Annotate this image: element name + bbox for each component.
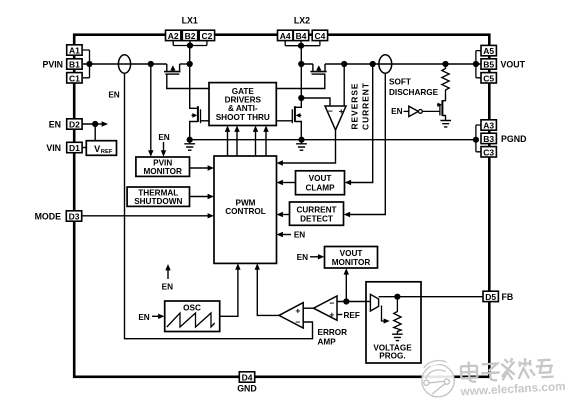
- svg-text:EN: EN: [49, 120, 61, 130]
- wire VOUT to comparator non-inverting input: [343, 64, 345, 106]
- pin D5: [483, 291, 498, 302]
- wire error amp inverting input to voltage prog: [337, 301, 370, 303]
- wire PVIN from B1 to high-side PMOS: [83, 63, 167, 65]
- op-amp error amplifier: [314, 296, 338, 320]
- pin C2: [199, 30, 214, 41]
- svg-text:REF: REF: [101, 149, 113, 155]
- transistor soft discharge NMOS: [437, 95, 446, 121]
- pin A4: [278, 30, 293, 41]
- mux voltage prog: [370, 294, 378, 311]
- svg-text:EN: EN: [391, 107, 402, 116]
- svg-text:B2: B2: [185, 31, 196, 41]
- resistor soft discharge: [442, 64, 449, 95]
- svg-text:C3: C3: [483, 147, 494, 157]
- ground symbol right NMOS: [296, 140, 307, 151]
- watermark chinese text: [461, 356, 554, 382]
- svg-text:GND: GND: [237, 384, 257, 394]
- node VOUT pin bracket: [473, 51, 481, 78]
- wire from ellipse down to current detect: [344, 73, 386, 217]
- wire gate of left NMOS to gate drivers: [201, 120, 210, 122]
- op-amp reverse current comparator: [325, 106, 346, 130]
- svg-text:D4: D4: [242, 373, 253, 383]
- node B1 bracket dot: [83, 50, 93, 78]
- svg-text:A2: A2: [168, 31, 179, 41]
- pin B3: [481, 133, 496, 144]
- svg-text:D2: D2: [69, 120, 80, 130]
- wire PVIN monitor output to PWM: [190, 165, 215, 170]
- svg-text:D1: D1: [69, 143, 80, 153]
- svg-text:A1: A1: [69, 46, 80, 56]
- node EN floating arrow: [162, 264, 173, 291]
- pin B2: [182, 30, 197, 41]
- svg-text:C2: C2: [201, 31, 212, 41]
- svg-text:& ANTI-: & ANTI-: [228, 104, 258, 113]
- block VOUT CLAMP: [296, 171, 345, 195]
- node REF label: [337, 311, 360, 320]
- block GATE DRIVERS & ANTI-SHOOT THRU: [209, 83, 276, 126]
- wire LX1 vertical: [187, 42, 198, 108]
- pin D1: [67, 142, 82, 153]
- svg-text:REVERSE: REVERSE: [349, 82, 359, 129]
- ellipse crossover EN left: [118, 55, 130, 73]
- svg-text:B3: B3: [483, 134, 494, 144]
- svg-text:MONITOR: MONITOR: [143, 167, 182, 176]
- wire EN arrow into PVIN monitor: [158, 133, 169, 157]
- svg-text:MONITOR: MONITOR: [332, 258, 371, 267]
- wire MODE from D3 to PWM: [82, 213, 214, 218]
- svg-text:C5: C5: [483, 73, 494, 83]
- resistor voltage prog: [394, 297, 401, 334]
- pin A5: [481, 45, 496, 56]
- svg-text:B4: B4: [296, 31, 307, 41]
- svg-text:SHOOT THRU: SHOOT THRU: [216, 113, 270, 122]
- op-amp PWM comparator: [279, 303, 303, 328]
- svg-text:C4: C4: [314, 31, 325, 41]
- pin C5: [481, 73, 496, 84]
- node SOFT DISCHARGE label: [389, 78, 439, 98]
- pin A1: [67, 45, 82, 56]
- svg-text:REF: REF: [344, 311, 360, 320]
- IC outline border: [74, 35, 489, 377]
- inverter soft discharge EN: [391, 106, 440, 116]
- wire LX2 vertical: [295, 43, 305, 108]
- svg-text:VOUT: VOUT: [501, 60, 526, 70]
- svg-text:CONTROL: CONTROL: [225, 207, 265, 216]
- svg-text:DETECT: DETECT: [300, 214, 333, 223]
- wire EN arrow into PWM right: [277, 231, 306, 240]
- ground symbol left NMOS: [184, 140, 195, 151]
- wire mux output to FB: [379, 294, 483, 300]
- block VOLTAGE PROG: [366, 282, 421, 363]
- svg-text:LX1: LX1: [182, 16, 198, 26]
- svg-text:SHUTDOWN: SHUTDOWN: [134, 197, 182, 206]
- wire PMOS right drain to VOUT: [325, 61, 481, 67]
- node PGND pin bracket: [473, 125, 481, 152]
- svg-text:EN: EN: [162, 282, 173, 291]
- svg-text:B1: B1: [69, 60, 80, 70]
- node ERROR AMP label: [318, 328, 348, 347]
- wire PVIN sense tap down to PVIN monitor: [148, 61, 154, 157]
- node LX2 pin bracket: [285, 41, 320, 46]
- pin B1: [67, 59, 82, 70]
- wire VIN to VREF: [82, 147, 86, 149]
- wire mux select arrow to resistor: [382, 306, 390, 324]
- wire PMOS left drain to LX1 node: [180, 61, 193, 67]
- wire PWM to gate drivers arrows x4: [225, 126, 269, 157]
- svg-text:EN: EN: [294, 231, 305, 240]
- wire gate of left PMOS to gate drivers: [167, 74, 209, 89]
- block PWM CONTROL: [214, 156, 277, 263]
- svg-text:AMP: AMP: [318, 337, 337, 346]
- ellipse crossover right: [379, 55, 392, 73]
- svg-text:PGND: PGND: [501, 134, 526, 144]
- node REVERSE CURRENT label: [349, 82, 370, 130]
- svg-text:VIN: VIN: [46, 143, 61, 153]
- svg-text:ERROR: ERROR: [318, 328, 348, 337]
- wire comparator output to PWM control: [277, 130, 336, 166]
- transistor high-side PMOS left: [164, 64, 181, 74]
- svg-text:PROG.: PROG.: [379, 351, 405, 360]
- pin C3: [481, 147, 496, 158]
- svg-text:+: +: [339, 106, 344, 116]
- svg-text:EN: EN: [108, 91, 119, 100]
- svg-text:VOUT: VOUT: [340, 249, 363, 258]
- svg-text:A5: A5: [483, 46, 494, 56]
- svg-text:LX2: LX2: [294, 16, 310, 26]
- svg-text:−: −: [329, 298, 334, 308]
- svg-text:−: −: [295, 317, 300, 327]
- svg-text:−: −: [328, 106, 333, 116]
- svg-text:EN: EN: [138, 313, 149, 322]
- transistor low-side NMOS left: [190, 106, 201, 140]
- svg-text:CURRENT: CURRENT: [360, 82, 370, 130]
- svg-text:+: +: [295, 305, 300, 315]
- pin C4: [312, 30, 327, 41]
- block VREF: [86, 141, 116, 156]
- wire EN arrow into OSC: [138, 313, 164, 322]
- node LX1 pin bracket: [173, 41, 207, 46]
- block VOUT MONITOR: [325, 247, 378, 269]
- svg-text:DISCHARGE: DISCHARGE: [389, 88, 439, 97]
- wire error node up to VOUT monitor: [343, 268, 349, 304]
- pin D3: [66, 211, 81, 222]
- pin B4: [293, 30, 308, 41]
- pin D4: [239, 372, 254, 383]
- svg-text:A4: A4: [280, 31, 291, 41]
- svg-text:B5: B5: [483, 60, 494, 70]
- pin A2: [166, 30, 181, 41]
- wire error amp inverting input inside box: [366, 301, 370, 303]
- svg-text:FB: FB: [502, 292, 514, 302]
- transistor low-side NMOS right: [292, 106, 301, 140]
- pin B5: [481, 59, 496, 70]
- block PVIN MONITOR: [136, 157, 190, 176]
- wire OSC output to PWM: [220, 263, 241, 316]
- wire LX2 to comparator inverting input: [301, 98, 330, 106]
- wire EN arrow into VOUT monitor: [297, 253, 325, 262]
- wire gate of right PMOS to gate drivers: [276, 74, 325, 89]
- svg-text:A3: A3: [483, 121, 494, 131]
- svg-text:C1: C1: [69, 73, 80, 83]
- block OSC: [165, 301, 220, 332]
- block THERMAL SHUTDOWN: [127, 187, 189, 206]
- ground symbol voltage prog: [392, 334, 403, 340]
- svg-text:SOFT: SOFT: [389, 78, 411, 87]
- svg-text:+: +: [329, 310, 334, 320]
- svg-text:OSC: OSC: [183, 304, 201, 313]
- svg-text:CLAMP: CLAMP: [305, 183, 335, 192]
- wire PWM comparator output to PWM control: [255, 263, 279, 315]
- svg-text:VOUT: VOUT: [309, 174, 332, 183]
- pin A3: [481, 120, 496, 131]
- wire EN from D2 with branch to VREF: [82, 121, 108, 141]
- wire error amp output to comparator plus input: [303, 307, 313, 309]
- wire VOUT clamp output to PWM: [277, 180, 296, 185]
- wire gate of right NMOS to gate drivers: [276, 120, 292, 122]
- watermark logo circle: [421, 360, 455, 398]
- wire current detect output to PWM: [277, 212, 290, 217]
- pin D2: [67, 119, 82, 130]
- svg-text:EN: EN: [158, 133, 169, 142]
- svg-text:PVIN: PVIN: [42, 60, 63, 70]
- svg-text:MODE: MODE: [35, 212, 62, 222]
- ground symbol soft discharge: [440, 121, 451, 127]
- wire EN from ellipse down to PWM comparator inverting input: [125, 73, 313, 339]
- block CURRENT DETECT: [290, 202, 344, 225]
- pin C1: [67, 73, 82, 84]
- transistor high-side PMOS right: [301, 64, 326, 74]
- wire thermal shutdown output to PWM: [190, 194, 215, 199]
- wire VOUT tap to VOUT clamp: [345, 64, 373, 185]
- svg-text:CURRENT: CURRENT: [296, 205, 336, 214]
- svg-text:D5: D5: [485, 292, 496, 302]
- svg-text:EN: EN: [297, 253, 308, 262]
- svg-text:D3: D3: [69, 212, 80, 222]
- ground rail PGND: [187, 137, 476, 143]
